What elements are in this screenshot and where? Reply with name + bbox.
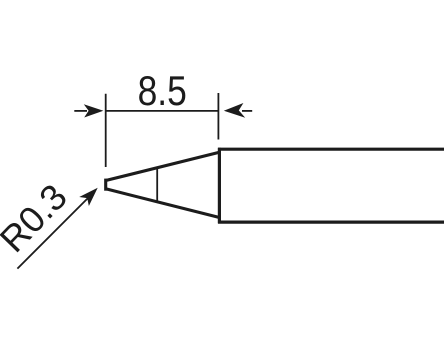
dimension tail left <box>74 110 87 112</box>
cone mid line <box>156 168 158 201</box>
body junction line <box>218 148 221 224</box>
svg-text:8.5: 8.5 <box>138 68 187 114</box>
extension line left <box>105 94 107 167</box>
leader line R0.3 <box>17 192 94 269</box>
leader arrowhead (points up-right 45deg) <box>79 183 102 206</box>
cone top slant <box>106 152 220 180</box>
dimension line 8.5 <box>106 110 219 112</box>
arrowhead left (points right) <box>84 104 104 117</box>
dimension tail right <box>242 110 252 112</box>
arrowhead right (points left) <box>224 103 245 118</box>
body top line <box>218 148 444 151</box>
extension line right <box>217 93 219 140</box>
cone bottom slant <box>106 189 220 218</box>
tip flat face <box>104 179 107 191</box>
body bottom line <box>218 221 444 224</box>
